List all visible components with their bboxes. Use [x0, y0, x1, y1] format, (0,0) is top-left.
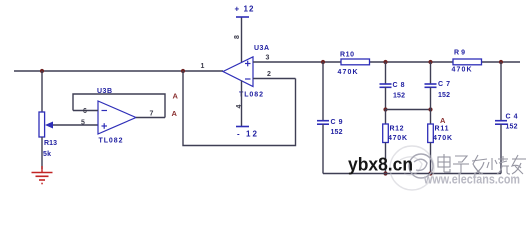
wire R12 to rail — [385, 143, 387, 174]
watermark text zi (子) — [453, 156, 469, 174]
node junction on bus at U3A feedback — [181, 69, 185, 73]
node C8-C7 right junction — [428, 107, 432, 111]
svg-text:R12: R12 — [390, 126, 404, 133]
svg-text:C8: C8 — [393, 82, 405, 89]
svg-text:2: 2 — [267, 71, 271, 78]
watermark elecfans logo circle — [409, 154, 433, 178]
svg-text:A: A — [172, 109, 178, 118]
capacitor C8 — [380, 84, 392, 87]
pin 4 power stub — [241, 81, 243, 127]
svg-text:3: 3 — [266, 55, 270, 62]
watermark text fa (发) — [472, 155, 487, 174]
svg-text:470K: 470K — [388, 135, 407, 142]
watermark text shao (烧) — [487, 156, 510, 174]
svg-text:U3A: U3A — [254, 45, 269, 52]
wire C9 to rail — [322, 124, 324, 173]
svg-text:www.elecfans.com: www.elecfans.com — [423, 173, 520, 187]
svg-text:4: 4 — [236, 105, 243, 109]
watermark text you (友) — [512, 155, 526, 174]
capacitor C7 — [425, 84, 437, 87]
ground — [32, 166, 53, 184]
U3A minus mark — [245, 78, 251, 80]
wire pin 2 — [253, 78, 296, 80]
svg-text:470K: 470K — [433, 135, 452, 142]
resistor R12 — [383, 124, 389, 143]
resistor R11 — [428, 124, 434, 143]
wire C8 branch — [385, 62, 387, 84]
watermark text dian (电) — [438, 154, 450, 172]
svg-text:C7: C7 — [438, 81, 450, 88]
capacitor C4 — [495, 121, 507, 125]
svg-text:5k: 5k — [43, 151, 51, 158]
svg-text:5: 5 — [81, 120, 85, 127]
wire main bus — [14, 70, 223, 72]
U3B minus mark — [102, 110, 108, 112]
svg-text:C9: C9 — [331, 119, 343, 126]
U3B plus mark — [102, 123, 108, 129]
wire C8 to junction — [385, 87, 387, 109]
wire C9 branch — [322, 62, 324, 120]
resistor R9 — [453, 59, 482, 65]
svg-text:470K: 470K — [452, 67, 472, 74]
wire R11 to rail — [430, 143, 432, 174]
potentiometer R13 body — [39, 112, 45, 137]
wire C7 to junction — [430, 87, 432, 109]
wire bottom rail — [323, 173, 501, 175]
svg-text:152: 152 — [331, 129, 343, 136]
capacitor C9 — [317, 121, 329, 125]
node C7 tap — [428, 60, 432, 64]
svg-text:470K: 470K — [338, 69, 358, 76]
wire R13 branch down — [41, 71, 43, 112]
U3A plus mark — [245, 61, 251, 67]
svg-text:TL082: TL082 — [99, 138, 123, 145]
svg-text:152: 152 — [506, 124, 518, 131]
wire junction link — [386, 109, 431, 111]
wire U3B feedback loop — [73, 94, 165, 118]
svg-text:8: 8 — [234, 35, 241, 39]
wire C7 branch — [430, 62, 432, 84]
potentiometer R13 wiper arrow — [45, 122, 98, 129]
wire pin 6 input — [73, 110, 98, 112]
svg-text:7: 7 — [150, 111, 154, 118]
+12 power bar — [236, 16, 249, 18]
svg-text:A: A — [440, 116, 446, 125]
resistor R10 — [341, 59, 370, 65]
wire R13 to ground — [41, 137, 43, 169]
svg-text:R10: R10 — [340, 52, 354, 59]
wire pin 7 output — [136, 117, 165, 119]
svg-text:152: 152 — [393, 93, 405, 100]
node junction on bus at R13 — [40, 69, 44, 73]
wire R11 top — [430, 110, 432, 125]
watermark logo circle faint — [390, 146, 434, 190]
svg-text:U3B: U3B — [97, 88, 112, 95]
svg-text:6: 6 — [83, 108, 87, 115]
svg-text:152: 152 — [438, 92, 450, 99]
node C8 tap — [383, 60, 387, 64]
node C9 tap — [321, 60, 325, 64]
node R12 rail junction — [383, 171, 387, 175]
wire pin 3 chain — [253, 61, 520, 63]
svg-text:1: 1 — [201, 63, 205, 70]
svg-text:TL082: TL082 — [239, 92, 263, 99]
svg-text:ybx8.cn: ybx8.cn — [348, 154, 413, 175]
pin 8 power stub — [241, 17, 243, 62]
wire C4 branch — [500, 62, 502, 120]
svg-text:R13: R13 — [44, 140, 57, 147]
svg-text:- 12: - 12 — [237, 130, 258, 139]
svg-text:A: A — [173, 92, 179, 101]
wire U3A feedback loop — [183, 71, 296, 146]
svg-text:R9: R9 — [454, 50, 465, 57]
wire R12 top — [385, 110, 387, 125]
node R11 rail junction — [428, 171, 432, 175]
svg-text:C4: C4 — [506, 114, 518, 121]
svg-text:+ 12: + 12 — [235, 5, 255, 14]
wire C4 to rail — [500, 124, 502, 173]
op-amp U3A — [223, 57, 253, 87]
node C4 tap — [499, 60, 503, 64]
op-amp U3B — [98, 101, 136, 134]
svg-text:R11: R11 — [435, 126, 449, 133]
-12 power bar — [236, 126, 249, 128]
node C8-C7 left junction — [383, 107, 387, 111]
